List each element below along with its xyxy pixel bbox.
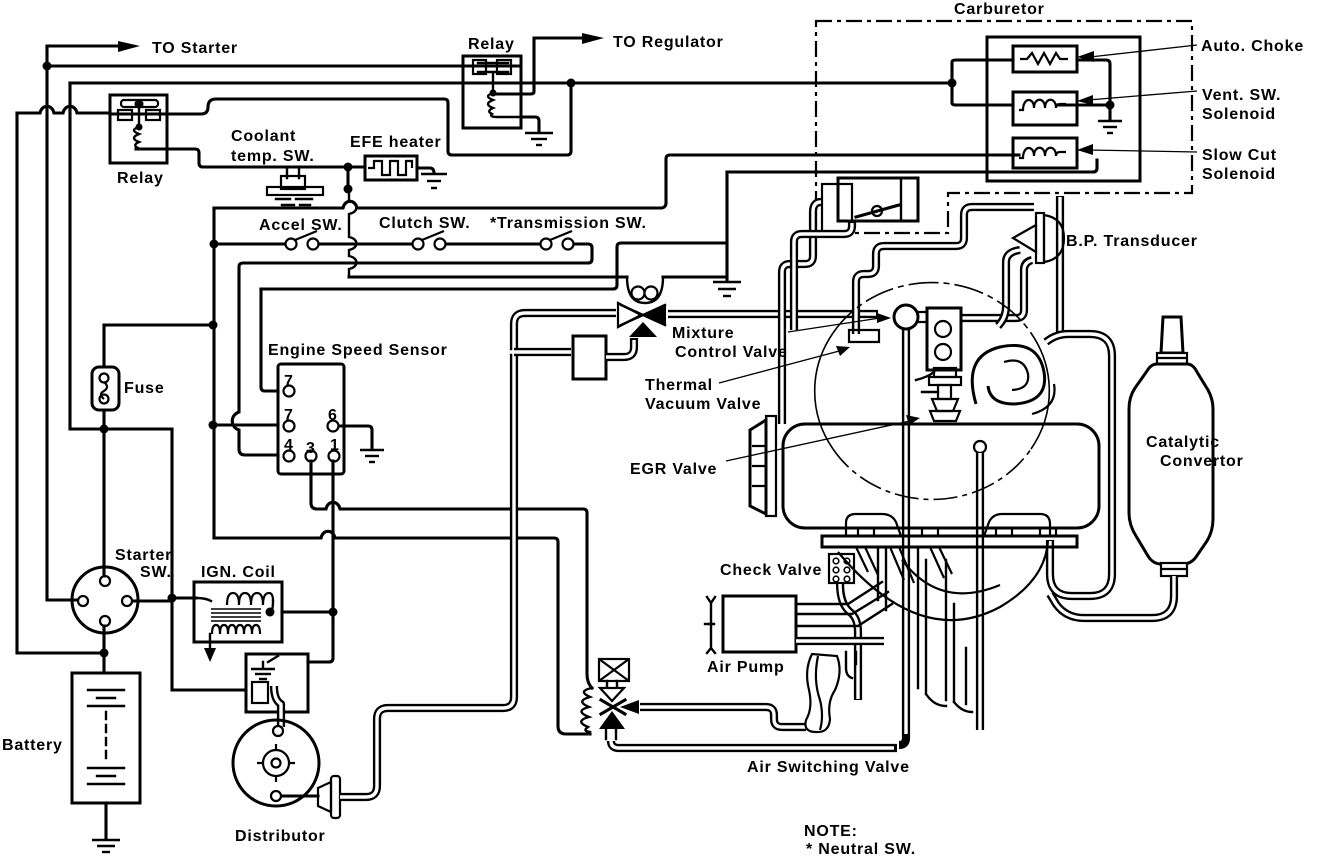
relay R1 contact right	[146, 110, 160, 120]
pointer mixture control valve	[788, 318, 880, 332]
pipe catalytic outlet	[1050, 576, 1174, 618]
engine pan connector tabs	[858, 528, 1056, 536]
svg-text:Mixture: Mixture	[672, 325, 735, 342]
spark plug stack	[929, 368, 961, 421]
igniter box	[246, 654, 308, 712]
pipe air pump lower outlet	[796, 637, 884, 645]
svg-text:Battery: Battery	[2, 737, 63, 754]
engine fan blade 1	[856, 547, 878, 575]
svg-text:7: 7	[284, 407, 294, 424]
wire x214 slow-cut feeder top	[214, 155, 1013, 208]
check valve balls	[833, 558, 850, 582]
pipe TVV to mixture valve bottom	[606, 338, 634, 357]
pipe engine to carburetor vertical	[1056, 196, 1064, 334]
pipe second pole to pouch	[976, 453, 984, 730]
node J8	[100, 425, 109, 434]
node J4	[100, 649, 109, 658]
wire relay R2 to regulator arrow	[497, 38, 582, 94]
svg-text:Control Valve: Control Valve	[675, 344, 788, 361]
arrow ign coil down	[204, 648, 216, 662]
pole second cap	[974, 441, 986, 453]
valve Mixture Control body	[618, 277, 666, 337]
node J13	[266, 608, 275, 617]
svg-text:Air Pump: Air Pump	[707, 659, 785, 676]
wire fuse junction line y325	[104, 323, 213, 326]
solenoid Vent SW coil	[1019, 100, 1066, 110]
air switching upper triangle	[600, 688, 624, 701]
fuse F1 body	[92, 367, 119, 410]
EGR valve slats	[752, 446, 766, 486]
switch Accel SW contacts	[286, 231, 319, 250]
wire vent junction to ground	[1108, 105, 1111, 119]
svg-text:EGR Valve: EGR Valve	[630, 461, 717, 478]
relay R2 coil	[488, 74, 519, 117]
igniter output pipe	[274, 686, 281, 727]
svg-text:NOTE:: NOTE:	[804, 823, 858, 840]
solenoid Vent SW box	[1013, 92, 1077, 125]
wire relay R2 through y66	[463, 64, 521, 67]
wire accel switch line left	[214, 242, 285, 245]
wire ground bus x727	[725, 172, 728, 280]
switch Clutch SW contacts	[413, 231, 446, 250]
wire vent output	[1058, 103, 1110, 106]
ground mixture-valve area	[713, 282, 741, 296]
svg-text:IGN. Coil: IGN. Coil	[201, 564, 276, 581]
resistor EFE heater box	[365, 156, 417, 180]
air switching arrow head	[620, 700, 639, 714]
wire carburetor feed split	[952, 60, 1013, 105]
svg-text:Starter: Starter	[115, 547, 172, 564]
starter port top	[100, 576, 110, 586]
choke linkage main box	[838, 178, 918, 221]
wire ign coil right to junction	[282, 610, 333, 613]
air switching cross	[601, 700, 625, 714]
node J11	[209, 421, 218, 430]
converter Catalytic body	[1129, 364, 1213, 564]
valve Thermal Vacuum body	[573, 336, 606, 379]
svg-text:Clutch SW.: Clutch SW.	[379, 215, 471, 232]
pipe check valve outlet	[840, 583, 858, 700]
transducer BP body	[1044, 215, 1064, 262]
bracket mixture valve mount	[927, 308, 961, 370]
wire sensor pin6 to ground	[339, 426, 372, 448]
engine shroud sweep	[838, 540, 1048, 620]
pouch inner line	[816, 656, 822, 730]
wire relay R1 coil to coolant switch line	[136, 149, 365, 167]
wire starter right port to x172	[133, 599, 172, 602]
EGR valve bar	[766, 416, 776, 516]
relay R2 contact left	[473, 60, 486, 74]
choke linkage pivot	[872, 206, 882, 216]
node J1	[43, 62, 52, 71]
svg-text:Engine Speed Sensor: Engine Speed Sensor	[268, 342, 448, 359]
air switching stem stubs	[607, 681, 617, 687]
wire y66 to relay R2	[47, 64, 470, 67]
wire y289 to ground right	[261, 243, 727, 289]
ign coil T1 box	[194, 582, 282, 642]
node J9	[168, 594, 177, 603]
ground sensor	[360, 450, 384, 462]
relay R1 coil node	[136, 124, 143, 131]
ign coil internal link	[196, 598, 273, 648]
wire y172 to slow cut solenoid bottom	[727, 160, 1097, 172]
fuse F1 element	[100, 374, 109, 404]
mixture valve right triangle	[644, 304, 666, 326]
svg-text:6: 6	[328, 407, 338, 424]
ign coil core	[211, 609, 261, 621]
node J2	[567, 79, 576, 88]
pouch top stubs	[846, 652, 856, 678]
arrow auto choke	[1077, 51, 1094, 62]
carburetor inner box	[987, 37, 1140, 181]
svg-text:Accel SW.: Accel SW.	[259, 217, 343, 234]
svg-text:SW.: SW.	[140, 564, 172, 581]
auto choke resistor	[1020, 53, 1068, 64]
transducer BP plate	[1036, 213, 1044, 263]
converter Catalytic collar top	[1157, 353, 1187, 364]
ball stem rects	[849, 312, 927, 342]
wire sensor pin7a feed	[261, 289, 278, 391]
wire starter bottom to battery	[102, 626, 105, 673]
transducer BP cone	[1013, 225, 1036, 252]
ign coil secondary winding	[212, 625, 260, 634]
node J6	[344, 185, 353, 194]
node J5 EFE junction	[344, 163, 353, 172]
relay R2 armature bar	[478, 63, 508, 72]
wire y83 main top bus	[70, 81, 952, 84]
svg-text:7: 7	[284, 373, 294, 390]
pointer thermal vacuum valve	[719, 350, 843, 383]
battery plates	[88, 690, 124, 706]
wire fuse bottom to starter switch	[102, 410, 105, 576]
svg-text:B.P. Transducer: B.P. Transducer	[1066, 233, 1198, 250]
wire vertical bus x47	[47, 46, 77, 600]
ground relay R2	[525, 133, 553, 145]
engine fan blade 3	[930, 547, 952, 578]
distributor connector plug	[318, 782, 331, 812]
engine blade curve right upper	[972, 345, 1044, 404]
wire accel to clutch	[319, 242, 412, 245]
relay R1 armature node	[135, 100, 144, 109]
mixture valve cross	[621, 305, 665, 325]
switch Transmission SW contacts	[541, 231, 574, 250]
engine blade curve right lower	[1004, 361, 1055, 415]
pump Air Pump box	[723, 596, 796, 652]
svg-text:Catalytic: Catalytic	[1146, 434, 1220, 451]
arrow slow cut solenoid	[1077, 144, 1093, 155]
sensor pin 3	[306, 451, 317, 462]
distributor top port	[273, 726, 283, 736]
distributor center hub	[257, 744, 295, 782]
svg-text:Vent. SW.: Vent. SW.	[1202, 87, 1281, 104]
engine fan blade 2	[890, 547, 914, 583]
switch Starter SW body	[72, 567, 138, 633]
valve Check Valve box	[829, 554, 854, 583]
sensor Engine-Speed-Sensor box	[278, 364, 344, 474]
bracket hole 1	[935, 321, 951, 337]
pointer slow cut solenoid	[1088, 150, 1197, 152]
wire sensor pin1 down	[331, 461, 334, 612]
pipe engine down-pipe to air hose	[899, 329, 906, 745]
node J10	[210, 240, 219, 249]
coolant temp switch fluid dashes	[276, 199, 312, 205]
relay R1 contact left	[118, 110, 132, 120]
EGR valve fan trapezoid	[750, 420, 766, 514]
svg-text:Thermal: Thermal	[645, 377, 713, 394]
sensor pin 4	[284, 451, 295, 462]
wire sensor pin7b feed y425	[213, 423, 278, 426]
mixture valve coil loops	[632, 287, 645, 300]
svg-text:EFE heater: EFE heater	[350, 134, 442, 151]
svg-text:TO Starter: TO Starter	[152, 40, 238, 57]
relay R1 coil	[134, 107, 139, 148]
relay R1 box	[110, 95, 167, 163]
pointer auto choke	[1090, 45, 1197, 57]
relay R2 contact right	[497, 60, 511, 74]
wire junction down to igniter	[308, 612, 333, 662]
node J7	[209, 321, 218, 330]
battery B1 case	[72, 673, 140, 803]
wire clutch to transmission	[446, 242, 540, 245]
distributor connector bar	[331, 776, 340, 818]
resistor EFE heater meander	[368, 161, 412, 175]
converter Catalytic neck	[1161, 317, 1183, 353]
wire transmission return line	[232, 244, 592, 455]
svg-text:3: 3	[306, 440, 316, 457]
wire EFE to ground	[417, 168, 434, 172]
wire fuse top feed	[104, 325, 213, 367]
wire relay R1 output hook to y99	[167, 85, 571, 155]
pipe air switching bottom hose	[611, 741, 897, 748]
svg-text:temp. SW.: temp. SW.	[231, 148, 315, 165]
wire x214 bottom to air valve solenoid bottom	[214, 531, 590, 734]
wire ign coil left feed	[172, 596, 196, 599]
wire relay R1 internal	[110, 112, 167, 115]
node J3	[948, 79, 957, 88]
arrow TO Starter	[118, 41, 140, 52]
wire EFE junction down	[346, 167, 349, 189]
pipe engine right loop around catalytic	[1046, 334, 1112, 596]
pointer EGR valve	[726, 421, 910, 461]
arrow TO Regulator	[582, 33, 604, 44]
pipe branch to thermal vacuum valve	[514, 348, 571, 356]
arrow thermal pointer	[836, 346, 850, 356]
sensor pin 7a	[284, 386, 295, 397]
air pump outlet line 2	[796, 592, 888, 614]
ground battery	[92, 840, 120, 852]
air pump outlet line 3	[796, 604, 892, 626]
relay R2 coil node	[490, 90, 497, 97]
wire vertical bus x70	[70, 83, 172, 429]
wire vertical bus x17	[17, 113, 104, 653]
wire sensor pin3 to air valve solenoid top	[311, 461, 592, 688]
svg-text:Carburetor: Carburetor	[954, 1, 1045, 18]
ground vent solenoid	[1098, 121, 1122, 133]
distributor bottom port	[271, 791, 281, 801]
distributor D1 body	[233, 720, 319, 806]
node J12	[329, 608, 338, 617]
svg-text:Distributor: Distributor	[235, 828, 326, 845]
pouch air switching body	[805, 654, 839, 732]
wire squiggle feed to relay R1 with hops	[17, 106, 110, 113]
pointer vent solenoid	[1088, 91, 1197, 100]
coolant temp switch stubs	[287, 167, 299, 178]
solenoid Slow Cut box	[1013, 138, 1077, 168]
coil air switching solenoid	[581, 688, 592, 732]
choke linkage divider	[900, 178, 902, 221]
pipe mixture valve to EGR port	[668, 310, 878, 318]
relay R1 armature bar	[121, 100, 158, 107]
auto choke box	[1013, 46, 1077, 72]
wire x172 vertical to ign coil and igniter	[172, 429, 246, 690]
wire distributor to connector	[282, 794, 318, 797]
ball mixture valve actuator	[894, 305, 918, 329]
wire y277 to mixture valve coil	[349, 275, 627, 278]
engine pan hump right	[984, 514, 1050, 536]
engine fan circle	[815, 333, 833, 449]
converter Catalytic collar bottom	[1161, 563, 1187, 576]
igniter transistor symbol	[263, 656, 278, 668]
pipe air switching valve outlet right	[640, 707, 806, 727]
coolant temp switch bar	[267, 187, 323, 195]
carburetor dashed boundary	[816, 21, 1192, 233]
wire relay R2 through y83	[463, 81, 521, 84]
svg-text:* Neutral SW.: * Neutral SW.	[806, 841, 916, 856]
svg-text:4: 4	[284, 437, 294, 454]
ign coil primary winding	[227, 593, 273, 605]
svg-text:Relay: Relay	[117, 170, 164, 187]
pipe choke box to engine left	[794, 221, 852, 330]
mixture valve bottom triangle	[629, 322, 657, 337]
arrow vent solenoid	[1077, 95, 1093, 105]
svg-text:Air Switching Valve: Air Switching Valve	[747, 759, 910, 776]
starter port bottom	[100, 616, 110, 626]
igniter resistor block	[252, 682, 268, 703]
solenoid Slow Cut coil	[1019, 148, 1066, 158]
pipe engine to transducer S-route	[856, 207, 1034, 334]
pipe bracket to transducer bottom	[960, 260, 1032, 318]
ground EFE heater	[421, 174, 447, 188]
engine valve cover	[783, 424, 1099, 528]
air pump outlet line 1	[796, 582, 882, 604]
valve Air Switching X-box	[599, 659, 629, 681]
svg-text:*Transmission SW.: *Transmission SW.	[490, 215, 647, 232]
pump Air Pump bracket	[705, 597, 715, 653]
air switching bottom stubs	[606, 729, 616, 739]
wire choke to vent junction	[1077, 60, 1110, 105]
relay R2 box	[463, 56, 521, 128]
engine shroud sweep inner	[902, 560, 1000, 593]
battery separator dashes	[105, 712, 107, 760]
pipe distributor to advance line	[340, 313, 616, 797]
mixture valve left triangle	[618, 303, 641, 327]
wire mixture coil right to ground bus	[663, 275, 727, 278]
starter port right	[122, 596, 132, 606]
pipe transducer cone to engine	[998, 250, 1020, 326]
wire squiggle vertical to mixture valve coil	[349, 189, 357, 277]
spark plug lead	[916, 372, 938, 392]
air switching lower triangle	[599, 711, 625, 729]
engine pan hump left	[846, 514, 901, 536]
wire relay R2 ground lead	[521, 117, 539, 131]
wire TO-Starter feed	[47, 44, 118, 47]
choke linkage lever	[856, 205, 899, 217]
coolant temp switch cap	[281, 176, 305, 189]
svg-text:Solenoid: Solenoid	[1202, 106, 1276, 123]
svg-text:Fuse: Fuse	[124, 380, 165, 397]
igniter ground bars	[251, 669, 275, 679]
svg-text:Check Valve: Check Valve	[720, 562, 822, 579]
sensor pin 6	[328, 421, 339, 432]
pipe carburetor down-left to EGR area	[782, 202, 821, 424]
wire slow cut into box	[1013, 153, 1019, 156]
arrow EGR pointer	[906, 415, 920, 425]
battery plates lower	[88, 768, 124, 784]
sensor pin 1	[329, 451, 340, 462]
engine mounting bar	[822, 536, 1077, 547]
wire battery bottom to ground	[104, 803, 107, 838]
svg-text:Slow Cut: Slow Cut	[1202, 147, 1277, 164]
node vent junction	[1106, 101, 1115, 110]
svg-text:Solenoid: Solenoid	[1202, 166, 1276, 183]
wire x214 vertical bus	[212, 208, 215, 538]
svg-text:TO Regulator: TO Regulator	[613, 34, 724, 51]
sensor pin 7b	[284, 421, 295, 432]
svg-text:Auto. Choke: Auto. Choke	[1201, 38, 1304, 55]
bracket hole 2	[935, 344, 951, 360]
svg-text:Convertor: Convertor	[1160, 453, 1244, 470]
arrow mixture pointer	[877, 313, 891, 323]
mixture valve coil cup	[627, 277, 663, 303]
svg-text:Relay: Relay	[468, 36, 515, 53]
engine under-bar stub lines	[878, 547, 972, 712]
svg-text:Coolant: Coolant	[231, 128, 296, 145]
starter port left	[78, 596, 88, 606]
svg-text:Vacuum Valve: Vacuum Valve	[645, 396, 761, 413]
svg-text:1: 1	[330, 437, 340, 454]
choke linkage small box	[822, 184, 852, 233]
